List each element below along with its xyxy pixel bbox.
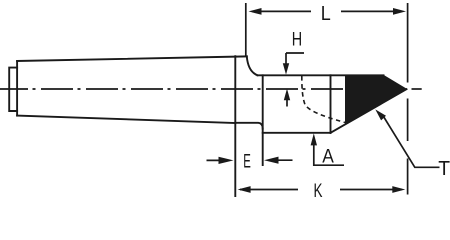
svg-text:E: E xyxy=(243,151,251,172)
svg-text:A: A xyxy=(322,147,334,168)
svg-text:L: L xyxy=(321,3,331,25)
svg-text:K: K xyxy=(314,181,323,199)
svg-text:H: H xyxy=(292,29,302,50)
svg-text:T: T xyxy=(438,158,450,180)
